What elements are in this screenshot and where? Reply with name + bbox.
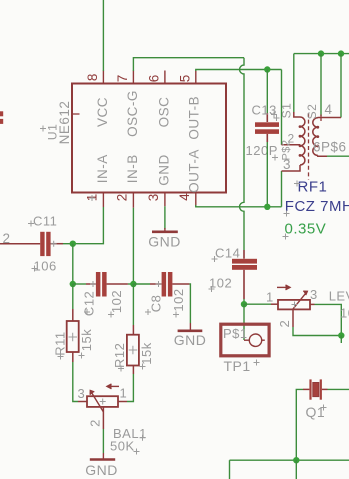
svg-text:3: 3 — [146, 194, 161, 202]
svg-text:3: 3 — [283, 157, 291, 172]
wire C14 bottom to junction — [243, 299, 245, 304]
pin 7 stub — [132, 71, 134, 84]
svg-text:2: 2 — [88, 419, 103, 427]
wire bottom left drop — [229, 460, 231, 479]
ground symbol pin3 — [152, 228, 178, 232]
svg-text:C13: C13 — [252, 103, 277, 118]
node junction top rail 2 — [338, 50, 344, 56]
svg-text:FCZ 7MHZ: FCZ 7MHZ — [285, 198, 349, 215]
wire pin7 net down x244 with hop over y69.5 — [240, 58, 245, 250]
svg-text:8: 8 — [85, 74, 100, 82]
ground symbol below C8 — [178, 323, 203, 331]
wire pin5 up and right — [196, 70, 282, 72]
wire junction to C12 — [73, 283, 86, 285]
wire pin3 down to ground — [164, 206, 166, 229]
svg-text:VCC: VCC — [95, 97, 110, 127]
wire pin1 down and left — [73, 207, 104, 244]
svg-text:C8: C8 — [149, 295, 164, 313]
node junction C12 left — [70, 281, 76, 287]
wire C11 to junction — [63, 243, 73, 245]
svg-text:4: 4 — [325, 102, 333, 117]
crystal Q1 — [303, 379, 328, 399]
transformer core dashed line — [308, 113, 310, 180]
node junction C14/TP1/LEVEL — [241, 301, 247, 307]
potentiometer LEVEL lead left — [271, 303, 278, 305]
svg-text:0.35V: 0.35V — [285, 221, 327, 238]
svg-text:OSC: OSC — [157, 97, 172, 128]
wire LEVEL right lead down — [315, 304, 342, 335]
wire bottom junction drop — [295, 460, 297, 479]
svg-text:1: 1 — [120, 386, 128, 401]
svg-text:S2: S2 — [305, 104, 319, 120]
ground symbol BAL1 — [90, 453, 115, 460]
wire pin2 down — [132, 208, 134, 284]
node junction bottom rail — [293, 457, 299, 463]
svg-text:102: 102 — [209, 276, 232, 291]
pin 4 stub — [195, 193, 197, 207]
svg-text:OSC-G: OSC-G — [125, 90, 140, 137]
op-amp U1 NE612 body — [72, 84, 226, 193]
svg-text:102: 102 — [109, 290, 124, 313]
svg-text:Q1: Q1 — [306, 404, 326, 420]
node junction OUT-A net — [264, 204, 270, 210]
wire bottom horizontal rail — [230, 459, 349, 461]
node junction at C13 top net — [264, 66, 270, 72]
svg-text:106: 106 — [34, 259, 57, 274]
svg-text:3: 3 — [310, 287, 318, 302]
node junction C11/R11 — [70, 241, 76, 247]
resistor R11 — [67, 309, 79, 362]
wire pin4 right along y206.8 — [196, 205, 282, 207]
potentiometer LEVEL wiper arrow — [277, 285, 307, 309]
wire VCC pin8 up to top edge — [102, 0, 104, 71]
svg-text:120P: 120P — [246, 143, 278, 158]
svg-text:RF1: RF1 — [298, 179, 328, 196]
pin 8 stub — [102, 71, 104, 84]
node junction LEVEL net — [338, 332, 344, 338]
wire pin7 up — [133, 58, 244, 71]
svg-text:C11: C11 — [33, 214, 57, 229]
wire C13 top branch — [266, 70, 268, 114]
svg-text:OUT-B: OUT-B — [187, 96, 202, 140]
pin 2 stub — [132, 193, 134, 208]
svg-text:15k: 15k — [79, 329, 94, 351]
resistor R12 — [127, 325, 139, 374]
potentiometer LEVEL lead right — [310, 303, 315, 305]
svg-text:6P$6: 6P$6 — [313, 140, 347, 155]
svg-text:3: 3 — [78, 386, 86, 401]
pin 6 stub — [164, 71, 166, 84]
svg-text:P$1: P$1 — [223, 326, 248, 341]
svg-text:R11: R11 — [53, 331, 68, 355]
transformer winding joint dots secondary — [316, 126, 319, 148]
svg-text:4: 4 — [177, 193, 192, 201]
wire crystal net left corner — [296, 389, 303, 460]
potentiometer BAL1 wiper pin down — [102, 407, 104, 429]
capacitor C13 — [255, 113, 279, 142]
svg-text:2: 2 — [277, 320, 292, 328]
capacitor C8 — [150, 272, 189, 297]
wire stub below junction — [340, 336, 342, 344]
wire C12 to pin2 junction — [128, 283, 133, 285]
wire junction down to TP1 — [243, 304, 245, 340]
potentiometer BAL1 lead right — [118, 401, 127, 403]
wire R11 to BAL pot — [73, 362, 78, 402]
wire R12 to BAL pot — [127, 374, 133, 402]
wire junction down to R12 — [132, 284, 134, 325]
wire junction to C8 — [133, 283, 150, 285]
svg-text:LEVEL: LEVEL — [329, 289, 349, 304]
node junction pin2/C12/C8/R12 — [130, 281, 136, 287]
wire pin4 drop — [340, 54, 342, 118]
svg-text:7: 7 — [115, 75, 130, 83]
wire up to transformer pin3 — [281, 171, 283, 207]
svg-text:GND: GND — [85, 462, 118, 478]
svg-text:10K: 10K — [340, 305, 349, 320]
svg-text:GND: GND — [174, 332, 207, 348]
wire C8 right down to ground — [189, 284, 190, 323]
capacitor at left edge — [0, 111, 3, 124]
pin 5 stub — [195, 71, 197, 84]
transformer winding joint dots primary — [299, 125, 302, 157]
wire C13 bottom down to OUT-A net — [266, 142, 268, 207]
svg-text:NE612: NE612 — [57, 101, 72, 145]
svg-text:R12: R12 — [112, 343, 127, 368]
wire crystal right to edge — [328, 388, 349, 390]
svg-text:102: 102 — [171, 288, 186, 311]
transformer RF1 primary winding — [282, 112, 305, 171]
svg-text:C14: C14 — [215, 246, 240, 261]
transformer RF1 secondary winding — [313, 115, 341, 157]
svg-text:5: 5 — [177, 75, 192, 83]
capacitor C11 — [0, 232, 63, 256]
wire down to transformer tap — [281, 70, 283, 145]
test point TP1 box — [221, 324, 269, 356]
potentiometer LEVEL wiper pin down — [292, 309, 294, 327]
node junction top rail 1 — [318, 50, 324, 56]
wire secondary bottom to right edge — [327, 155, 349, 157]
wire junction down to R11 — [72, 284, 74, 309]
potentiometer LEVEL body — [278, 300, 310, 310]
capacitor C12 — [86, 272, 128, 297]
svg-text:50K: 50K — [110, 439, 135, 454]
wire wiper to ground — [102, 429, 104, 453]
pin 3 stub — [164, 193, 166, 207]
potentiometer BAL1 lead left — [78, 401, 87, 403]
wire top rail to transformer — [294, 53, 349, 55]
wire junction right to LEVEL pot — [244, 303, 271, 305]
svg-text:GND: GND — [148, 234, 181, 250]
svg-text:1: 1 — [266, 290, 274, 305]
svg-text:OUT-A: OUT-A — [187, 149, 202, 193]
TP1 pad circle — [244, 334, 265, 346]
svg-text:GND: GND — [157, 154, 172, 186]
pin 1 stub — [102, 193, 104, 208]
potentiometer BAL1 body — [87, 396, 118, 407]
svg-text:S1: S1 — [280, 103, 294, 119]
svg-text:IN-A: IN-A — [95, 154, 110, 183]
potentiometer BAL1 wiper arrow — [90, 384, 119, 412]
wire stub down from rail to winding — [320, 54, 322, 116]
capacitor C14 — [232, 250, 257, 299]
origin crosses — [28, 112, 327, 455]
svg-text:15k: 15k — [139, 342, 154, 364]
wire wiper to junction — [293, 327, 341, 336]
wire down to C12 junction — [72, 244, 74, 284]
wire left winding top drop — [293, 54, 295, 113]
svg-text:IN-B: IN-B — [125, 154, 140, 183]
svg-text:6: 6 — [146, 75, 161, 83]
svg-text:2: 2 — [114, 194, 129, 202]
svg-text:TP1: TP1 — [224, 358, 251, 374]
